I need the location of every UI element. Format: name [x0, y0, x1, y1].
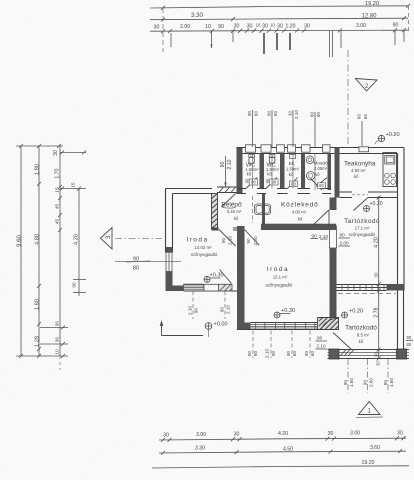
dimension line T3 segment chain: [150, 23, 409, 34]
hatched corner pier SE of big office: [318, 318, 353, 351]
lounge west wall: [311, 198, 337, 325]
belépő south wall thin: [212, 228, 238, 230]
axes below terrace with size pairs: [343, 359, 394, 393]
level mark +0.20 lounge: [364, 201, 383, 212]
partition WC1/WC2: [260, 154, 265, 189]
section line axis vertical: [347, 50, 349, 146]
level mark +0.30 left office: [204, 273, 224, 283]
section marker triangle 3: [101, 228, 163, 250]
dimension line T1 total 19.20: [150, 1, 410, 10]
lounge door size labels: [339, 233, 351, 247]
entrance door swing: [222, 194, 236, 209]
window axes below big office: [247, 331, 315, 359]
vertical dim chain detail: [16, 146, 68, 370]
lounge south glazing band: [337, 284, 405, 294]
big office south wall: [237, 323, 318, 330]
big office labels: [266, 266, 293, 288]
partition WC2/El: [280, 154, 285, 189]
lintel boxes in north wall: [246, 145, 369, 152]
vertical dim 4.20 inner: [60, 182, 86, 296]
terrace Tartózkodó labels: [345, 325, 377, 345]
Közlekedő labels: [281, 202, 319, 222]
section marker triangle 1: [356, 402, 383, 418]
entrance threshold: [217, 187, 237, 193]
right edge window label 90/80: [406, 335, 413, 347]
Teakonyha room: [344, 161, 376, 180]
corridor south wall dark band: [261, 224, 336, 230]
window axes + sizes below left office: [188, 291, 231, 319]
left wing north wall: [166, 189, 213, 194]
left header line: [16, 144, 63, 148]
top row south wall: [237, 188, 332, 194]
vertical dim chain 1.80/4.80/1.80/1.28: [35, 146, 42, 356]
partition belépő/corridor with pass sink: [255, 194, 271, 224]
terrace column west: [329, 349, 339, 359]
sub dimension 30: [53, 150, 86, 156]
level mark +0.20 top: [375, 132, 400, 144]
dimension line B2 3.30/4.50/3.60: [159, 445, 406, 455]
WC1 room: [245, 155, 260, 189]
terrace slab edge: [328, 350, 410, 359]
west wall window 90/80: [166, 252, 173, 271]
dimension line T2 3.30 / 12.80: [150, 13, 408, 22]
kitchen west wall: [335, 148, 340, 198]
kitchen south wall with door: [340, 192, 398, 211]
north-east wall stub at entry: [237, 148, 243, 195]
level mark +0.00: [205, 322, 228, 338]
Belépő labels: [221, 202, 242, 222]
south wall window B: [204, 284, 219, 291]
west wall lower dark block: [166, 272, 184, 292]
door corridor to big office with label 90/2.00: [245, 230, 260, 246]
Tartózkodó lounge labels: [344, 218, 380, 237]
window label 90/80: [115, 257, 181, 272]
Mosdó room: [306, 156, 328, 190]
section mark 1 left (arrow): [160, 320, 203, 336]
WC2 room: [265, 155, 280, 189]
south wall garden door hatched: [219, 270, 233, 292]
door belépő to left office extension: [219, 230, 236, 247]
south wall window A striped: [184, 284, 205, 291]
level mark +0.20 terrace: [342, 309, 364, 319]
top row north wall: [237, 148, 405, 154]
axis stubs hanging below top chain: [163, 6, 409, 57]
partition El/Mosdó: [301, 154, 305, 189]
porch east wall: [398, 291, 404, 350]
interior right dim chain 4.20/30/2.78/30: [374, 196, 381, 361]
dimension line B1 chain: [159, 431, 406, 442]
fixture axes above plan: [247, 110, 368, 190]
mosdó east wall: [328, 154, 332, 191]
terrace step hatch: [340, 350, 354, 357]
left office south wall: [184, 284, 238, 291]
east outer wall: [398, 148, 405, 291]
south glazing band with mullions: [251, 323, 319, 330]
kitchen counter: [383, 153, 397, 187]
level mark +0.30 big office: [274, 308, 295, 318]
dimension line B3 19.20: [152, 460, 409, 468]
section marker triangle 2: [356, 79, 378, 92]
big office west wall: [237, 226, 245, 330]
terrace column east: [397, 349, 407, 359]
entrance door axis + size 90/2.10: [220, 156, 233, 187]
hatched pier at entry: [212, 194, 218, 230]
left wing west wall: [166, 189, 173, 253]
El room: [286, 155, 300, 189]
terrace 30 label: [376, 361, 381, 366]
left office labels: [186, 237, 218, 258]
scan noise overlay: [0, 0, 1, 1]
door 90/2.10 to terrace labels: [316, 336, 328, 350]
corridor door axis dashed: [252, 196, 254, 223]
vertical dim line 9.60: [17, 146, 23, 356]
